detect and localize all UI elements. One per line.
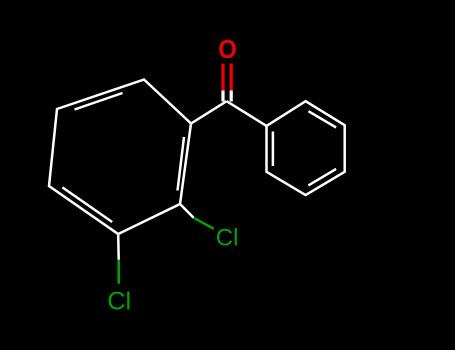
svg-text:Cl: Cl bbox=[216, 225, 239, 252]
left ring inner double bond G-SE bbox=[178, 137, 185, 191]
right ring inner double bond D-E bbox=[308, 169, 336, 186]
left ring inner double bond S-SW bbox=[62, 187, 112, 222]
left ring inner double bond NW-N bbox=[75, 93, 123, 110]
right benzene ring outline bbox=[267, 101, 345, 195]
C-Cl bond lower (white half) bbox=[117, 234, 120, 260]
right ring inner double bond F-A bbox=[272, 132, 275, 167]
svg-text:Cl: Cl bbox=[107, 287, 131, 315]
C=O double bond (red upper part) bbox=[223, 64, 231, 91]
right ring inner double bond B-C2 bbox=[308, 111, 336, 127]
wire: carbonyl C to right ring ipso A bbox=[227, 101, 267, 126]
C-Cl bond lower (green half) bbox=[117, 260, 120, 284]
left benzene ring outline bbox=[49, 80, 191, 235]
wire: carbonyl C to left ring ipso G bbox=[191, 101, 227, 123]
C-Cl bond upper (white half) bbox=[180, 204, 194, 218]
C=O double bond (white lower part) bbox=[223, 91, 231, 102]
C-Cl bond upper (green half) bbox=[194, 218, 214, 229]
svg-text:O: O bbox=[218, 36, 237, 64]
